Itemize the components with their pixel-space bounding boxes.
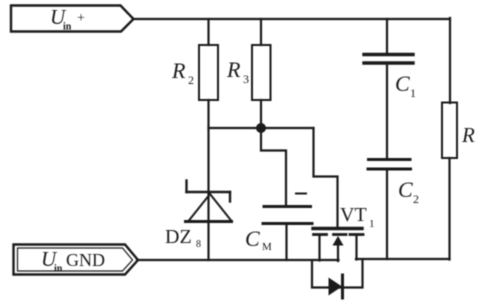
wire R3 top lead	[260, 19, 262, 45]
wire top rail	[134, 18, 451, 20]
body diode VD triangle	[329, 278, 343, 296]
svg-text:in: in	[63, 22, 72, 33]
svg-text:R: R	[171, 58, 186, 83]
wire node to CM	[261, 130, 286, 206]
svg-text:C: C	[395, 71, 410, 96]
wire gate path	[314, 128, 338, 227]
resistor R2	[199, 45, 218, 100]
svg-text:1: 1	[410, 86, 416, 100]
transistor VT1 source leg	[318, 236, 320, 261]
capacitor CM polarity dash	[296, 193, 306, 195]
wire R2 bottom lead / zener column	[207, 100, 209, 260]
svg-text:M: M	[262, 241, 272, 253]
wire right column top	[449, 18, 451, 103]
wire body diode loop	[312, 260, 363, 288]
svg-text:2: 2	[413, 192, 419, 206]
resistor R3	[252, 45, 271, 100]
wire R3 bottom lead	[260, 100, 262, 128]
node A junction dot	[256, 123, 266, 133]
resistor R	[442, 103, 457, 159]
svg-text:R: R	[226, 57, 241, 82]
svg-text:in: in	[54, 264, 63, 275]
svg-text:2: 2	[188, 73, 194, 87]
svg-text:R: R	[461, 123, 475, 147]
zener diode DZ triangle	[189, 194, 232, 221]
svg-text:VT: VT	[340, 204, 367, 226]
wire R2 top lead	[207, 19, 209, 45]
transistor VT1 drain leg	[355, 236, 357, 260]
svg-text:1: 1	[369, 218, 375, 230]
capacitor CM	[263, 207, 312, 224]
zener diode DZ cathode bar	[187, 181, 231, 202]
transistor VT1 body arrow	[333, 236, 344, 246]
label Uin GND	[41, 247, 105, 275]
wire C1-C2 link	[386, 64, 388, 158]
ground flag Uin GND outer	[14, 245, 139, 275]
ground flag Uin GND inner	[18, 248, 133, 271]
svg-text:8: 8	[196, 239, 201, 250]
svg-text:+: +	[77, 11, 85, 26]
wire C1 top lead	[386, 19, 388, 54]
svg-text:C: C	[245, 226, 260, 251]
wire bottom bus left	[137, 259, 339, 261]
wire node row	[209, 127, 314, 129]
wire CM bottom lead	[285, 224, 287, 260]
svg-text:C: C	[398, 177, 413, 202]
transistor VT1 body lead	[337, 245, 339, 261]
svg-text:3: 3	[243, 72, 249, 86]
wire bottom bus right	[356, 258, 450, 260]
transistor VT1 gate bar	[313, 227, 362, 230]
svg-text:DZ: DZ	[165, 226, 192, 248]
capacitor C1	[364, 55, 413, 64]
svg-text:GND: GND	[66, 250, 105, 270]
wire C2 bottom lead	[386, 170, 388, 259]
body diode VD cathode bar	[341, 275, 344, 298]
transistor VT1 channel segments	[314, 233, 364, 236]
wire right column bottom	[448, 158, 450, 260]
input flag Uin+	[11, 6, 134, 32]
label Uin+	[50, 5, 85, 33]
capacitor C2	[368, 160, 411, 170]
